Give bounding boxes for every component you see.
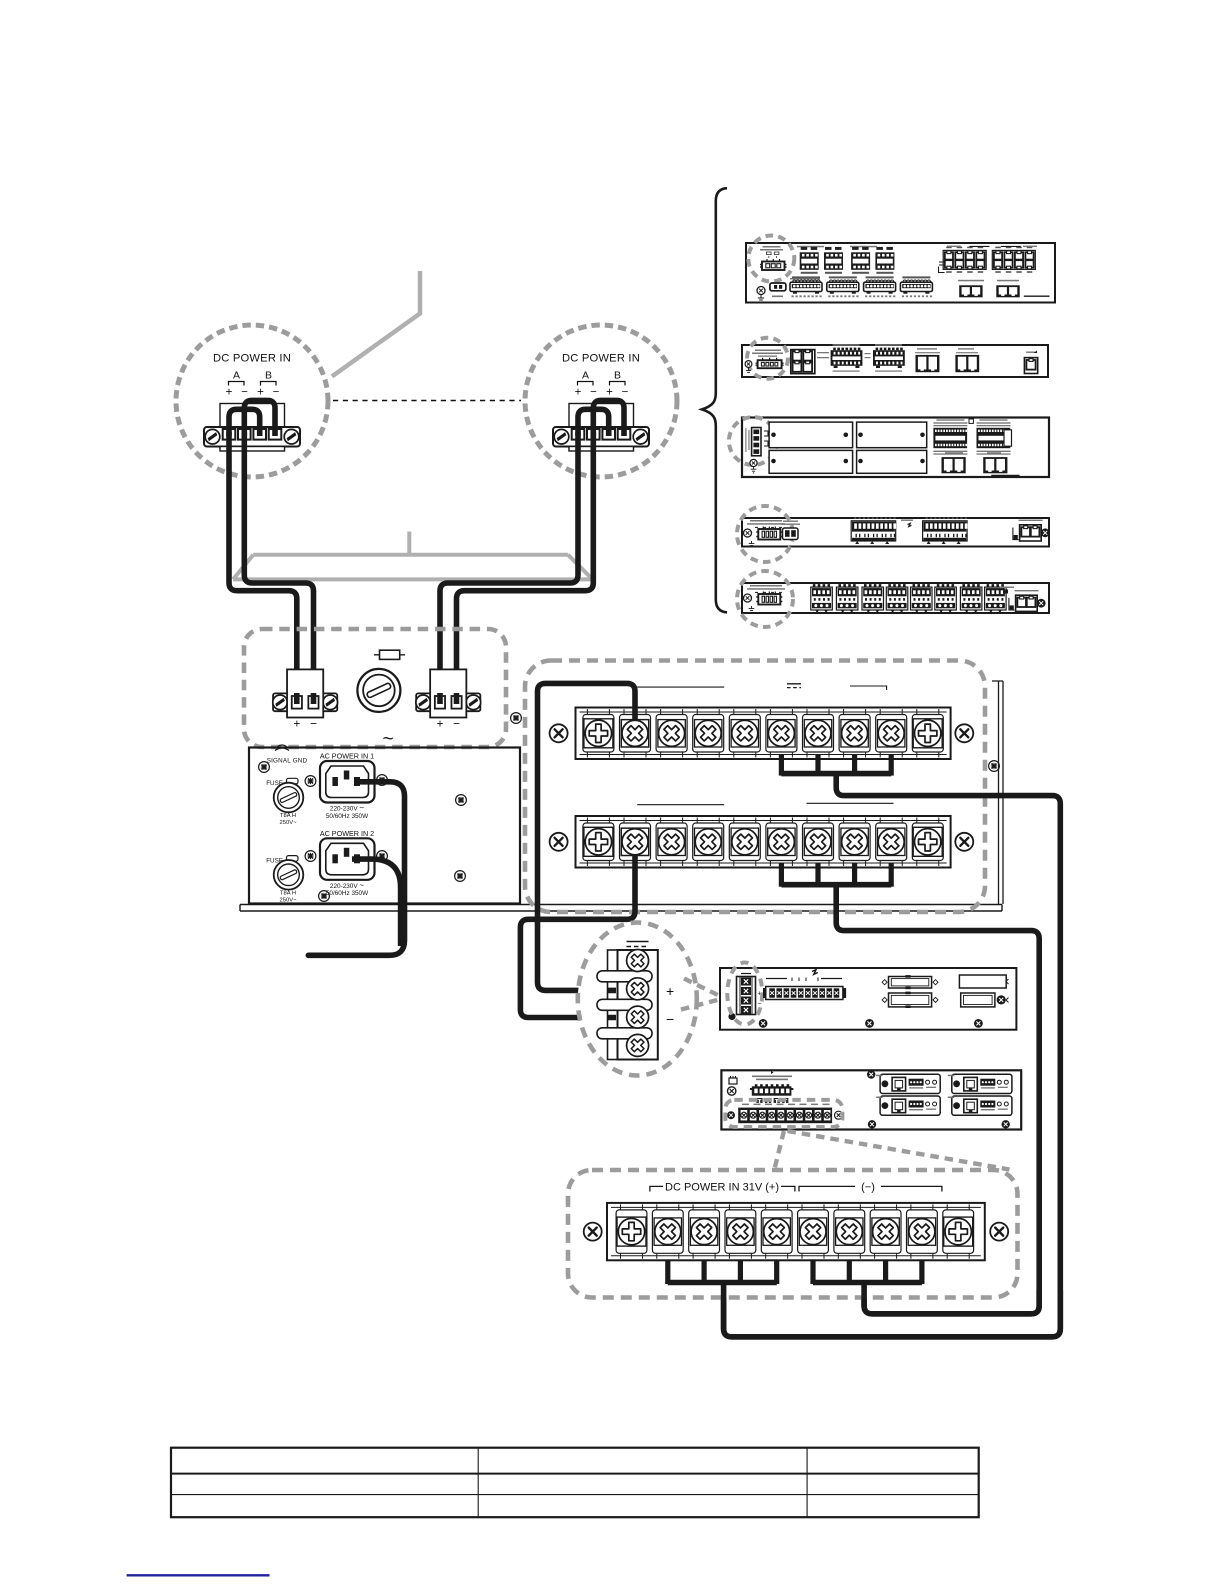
svg-text:T8A H: T8A H	[280, 813, 296, 819]
svg-text:AC POWER IN 1: AC POWER IN 1	[320, 752, 374, 761]
svg-text:−: −	[453, 717, 460, 731]
svg-text:AC POWER IN 2: AC POWER IN 2	[320, 829, 374, 838]
svg-text:+: +	[666, 983, 674, 999]
svg-text:50/60Hz 350W: 50/60Hz 350W	[326, 890, 369, 897]
svg-text:250V~: 250V~	[280, 820, 298, 826]
svg-text:+: +	[293, 717, 300, 731]
svg-text:220-230V ~: 220-230V ~	[330, 881, 365, 890]
svg-text:−: −	[666, 1011, 674, 1027]
svg-text:DC POWER IN 31V (+): DC POWER IN 31V (+)	[665, 1182, 779, 1194]
svg-text:220-230V ~: 220-230V ~	[330, 804, 365, 813]
svg-text:T8A H: T8A H	[280, 890, 296, 896]
svg-text:−: −	[310, 717, 317, 731]
svg-text:(−): (−)	[861, 1182, 875, 1194]
svg-text:50/60Hz 350W: 50/60Hz 350W	[326, 813, 369, 820]
svg-text:250V~: 250V~	[280, 897, 298, 903]
svg-text:+: +	[436, 717, 443, 731]
svg-text:SIGNAL GND: SIGNAL GND	[267, 758, 308, 765]
svg-text:−: −	[758, 1001, 762, 1008]
